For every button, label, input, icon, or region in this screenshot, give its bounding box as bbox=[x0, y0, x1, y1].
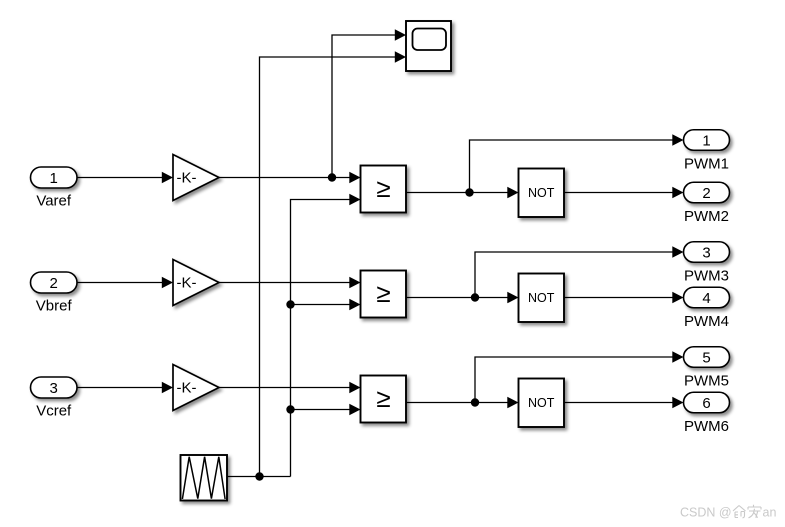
NOT1 logical operator bbox=[519, 169, 565, 218]
gain2 -K- bbox=[173, 260, 219, 306]
svg-text:PWM3: PWM3 bbox=[684, 268, 729, 285]
svg-text:PWM1: PWM1 bbox=[684, 156, 729, 173]
outport 2 PWM2 bbox=[684, 182, 730, 203]
gain3 -K- bbox=[173, 365, 219, 411]
wire row3 junction up to outport PWM5 bbox=[475, 351, 684, 402]
svg-text:Vbref: Vbref bbox=[36, 298, 73, 315]
svg-text:3: 3 bbox=[50, 380, 58, 397]
junction dot row1 gain output tap to scope bbox=[328, 173, 336, 181]
wire carrier junction to comparator3 input2 bbox=[291, 404, 361, 416]
svg-text:4: 4 bbox=[702, 290, 710, 307]
inport 3 Vcref bbox=[31, 377, 78, 398]
wire row1 junction up to outport PWM1 bbox=[470, 134, 684, 192]
junction dot carrier to comparator3 input2 bbox=[286, 405, 294, 413]
svg-text:≥: ≥ bbox=[376, 278, 390, 308]
NOT2 logical operator bbox=[519, 274, 565, 323]
svg-text:PWM5: PWM5 bbox=[684, 373, 729, 390]
wire comparator1 output to NOT1 bbox=[406, 187, 519, 199]
gain1 -K- bbox=[173, 155, 219, 201]
junction dot row1 comparator output tap bbox=[465, 188, 473, 196]
svg-text:PWM2: PWM2 bbox=[684, 208, 729, 225]
wire Varef port to gain1 bbox=[77, 172, 173, 184]
comparator1 relational operator >= bbox=[361, 166, 407, 213]
junction dot row2 comparator output tap bbox=[471, 293, 479, 301]
junction dot carrier tap to scope bbox=[255, 472, 263, 480]
wire repeating sequence output to carrier vertical bbox=[227, 476, 291, 478]
svg-text:1: 1 bbox=[50, 170, 58, 187]
svg-text:-K-: -K- bbox=[177, 380, 197, 397]
outport 4 PWM4 bbox=[684, 287, 730, 308]
outport 5 PWM5 bbox=[684, 347, 730, 368]
NOT3 logical operator bbox=[519, 379, 565, 428]
wire NOT1 output to outport PWM2 bbox=[564, 187, 684, 199]
wire carrier junction up to scope input 2 bbox=[260, 51, 407, 476]
svg-text:NOT: NOT bbox=[528, 396, 555, 410]
outport 3 PWM3 bbox=[684, 242, 730, 263]
svg-text:PWM6: PWM6 bbox=[684, 418, 729, 435]
svg-text:an: an bbox=[763, 506, 777, 520]
svg-text:2: 2 bbox=[50, 275, 58, 292]
svg-text:Vcref: Vcref bbox=[36, 403, 72, 420]
wire junction row1 up to scope input 1 bbox=[332, 29, 406, 177]
wire Vbref port to gain2 bbox=[77, 277, 173, 289]
svg-text:PWM4: PWM4 bbox=[684, 313, 729, 330]
svg-text:≥: ≥ bbox=[376, 383, 390, 413]
svg-text:1: 1 bbox=[702, 132, 710, 149]
svg-text:2: 2 bbox=[702, 185, 710, 202]
svg-text:6: 6 bbox=[702, 395, 710, 412]
svg-text:NOT: NOT bbox=[528, 186, 555, 200]
svg-text:3: 3 bbox=[702, 244, 710, 261]
inport 2 Vbref bbox=[31, 272, 78, 293]
svg-text:5: 5 bbox=[702, 349, 710, 366]
outport 6 PWM6 bbox=[684, 392, 730, 413]
scope block bbox=[406, 21, 451, 71]
wire gain2 output to comparator2 input1 bbox=[219, 277, 361, 289]
outport 1 PWM1 bbox=[684, 130, 730, 151]
svg-text:Varef: Varef bbox=[36, 193, 72, 210]
svg-text:NOT: NOT bbox=[528, 291, 555, 305]
comparator2 relational operator >= bbox=[361, 271, 407, 318]
comparator3 relational operator >= bbox=[361, 376, 407, 423]
wire comparator2 output to NOT2 bbox=[406, 292, 519, 304]
watermark CSDN bbox=[680, 505, 776, 520]
wire comparator3 output to NOT3 bbox=[406, 397, 519, 409]
wire carrier junction to comparator2 input2 bbox=[291, 299, 361, 311]
wire carrier vertical to comparator1 input2 bbox=[291, 194, 361, 477]
svg-text:-K-: -K- bbox=[177, 275, 197, 292]
wire row2 junction up to outport PWM3 bbox=[475, 246, 684, 297]
wire Vcref port to gain3 bbox=[77, 382, 173, 394]
inport 1 Varef bbox=[31, 167, 78, 188]
junction dot row3 comparator output tap bbox=[471, 398, 479, 406]
junction dot carrier to comparator2 input2 bbox=[286, 300, 294, 308]
wire NOT3 output to outport PWM6 bbox=[564, 397, 684, 409]
svg-text:CSDN @: CSDN @ bbox=[680, 506, 732, 520]
wire gain3 output to comparator3 input1 bbox=[219, 382, 361, 394]
wire gain1 output to comparator1 input1 bbox=[219, 172, 361, 184]
svg-text:≥: ≥ bbox=[376, 173, 390, 203]
repeating sequence carrier block bbox=[181, 455, 228, 501]
wire NOT2 output to outport PWM4 bbox=[564, 292, 684, 304]
svg-text:-K-: -K- bbox=[177, 170, 197, 187]
